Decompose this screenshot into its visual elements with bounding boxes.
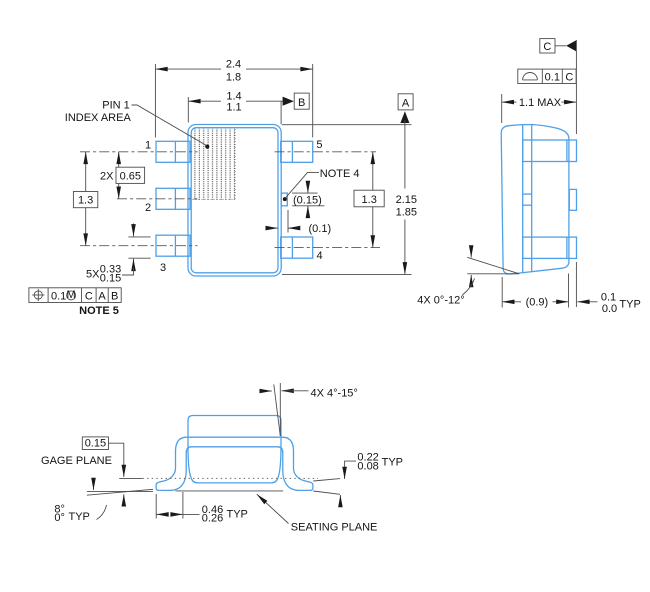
svg-text:NOTE 5: NOTE 5 — [79, 305, 119, 317]
dimension 0.46/0.26 TYP — [156, 492, 248, 524]
datum A box — [398, 94, 413, 110]
dimension 1.3 left — [73, 152, 97, 246]
svg-text:0.1: 0.1 — [51, 291, 66, 303]
dimension 2X 0.65 — [100, 152, 145, 199]
gage plane label — [41, 437, 124, 477]
pin 3 lead — [156, 235, 190, 256]
dimension 2.4/1.8 — [155, 58, 312, 137]
seating plane line — [175, 490, 283, 492]
svg-text:A: A — [98, 291, 106, 303]
svg-text:M: M — [67, 289, 76, 301]
svg-text:0.15: 0.15 — [100, 272, 121, 284]
svg-text:INDEX AREA: INDEX AREA — [65, 112, 132, 124]
svg-text:NOTE 4: NOTE 4 — [320, 168, 360, 180]
svg-text:1.3: 1.3 — [78, 195, 93, 207]
svg-text:TYP: TYP — [69, 511, 90, 523]
pin 3 centerline — [80, 245, 198, 247]
dimension (0.9) — [502, 274, 568, 309]
dimension 0.22/0.08 TYP — [313, 452, 403, 505]
dimension 8/0 degrees TYP — [54, 481, 153, 525]
svg-text:2X: 2X — [100, 170, 114, 182]
svg-text:B: B — [298, 97, 305, 109]
gage plane solid segment — [119, 477, 142, 479]
svg-text:C: C — [543, 41, 551, 53]
svg-text:1.3: 1.3 — [362, 194, 377, 206]
svg-text:2.4: 2.4 — [226, 58, 241, 70]
svg-text:SEATING PLANE: SEATING PLANE — [291, 521, 378, 533]
datum C flag — [540, 39, 577, 53]
dimension 1.3 right — [354, 152, 384, 248]
svg-text:1.1: 1.1 — [226, 102, 241, 114]
side view body outline — [501, 125, 569, 275]
right gull-wing lead — [283, 451, 313, 490]
pin 1 lead — [156, 141, 190, 162]
svg-text:0.0: 0.0 — [602, 303, 617, 315]
pin 5 lead — [281, 141, 313, 162]
svg-text:B: B — [111, 291, 118, 303]
side view parting lines — [522, 125, 524, 273]
svg-text:4: 4 — [316, 250, 322, 262]
svg-text:1.8: 1.8 — [226, 72, 241, 84]
svg-text:A: A — [402, 98, 410, 110]
profile tolerance frame — [518, 69, 576, 84]
svg-text:0.1: 0.1 — [545, 72, 560, 84]
svg-text:2: 2 — [145, 202, 151, 214]
pin 4 centerline — [275, 247, 381, 249]
svg-text:C: C — [565, 72, 573, 84]
svg-text:0.15: 0.15 — [85, 438, 106, 450]
PIN 1 INDEX AREA label and leader — [65, 100, 210, 149]
svg-text:TYP: TYP — [382, 456, 403, 468]
gage plane dotted line — [143, 477, 319, 479]
package body inner outline — [191, 128, 278, 273]
pin 1 index area stipple — [193, 129, 236, 200]
pin 5 centerline — [275, 151, 377, 153]
side view top lead — [523, 140, 577, 162]
svg-text:0.65: 0.65 — [120, 170, 141, 182]
svg-text:1.4: 1.4 — [226, 90, 241, 102]
lead shoulder upper line — [176, 437, 294, 451]
dimension (0.1) — [267, 210, 332, 235]
svg-text:(0.9): (0.9) — [526, 296, 549, 308]
lead shoulder lower line — [186, 447, 283, 453]
dimension 4X 0-12 degrees — [417, 249, 519, 307]
svg-text:4X 0°-12°: 4X 0°-12° — [417, 294, 464, 306]
front view body outline — [188, 416, 281, 483]
mold protrusion feature — [281, 193, 287, 206]
svg-text:0°: 0° — [54, 512, 65, 524]
geometric tolerance frame — [29, 288, 121, 303]
dimension (0.15) — [292, 181, 325, 218]
package body outer outline — [188, 125, 281, 277]
svg-text:2.15: 2.15 — [396, 194, 417, 206]
svg-text:4X 4°-15°: 4X 4°-15° — [311, 387, 358, 399]
dimension 2.15/1.85 — [396, 111, 417, 274]
svg-text:0.08: 0.08 — [357, 460, 378, 472]
pin 1 centerline — [80, 151, 198, 153]
seating plane label — [257, 494, 378, 533]
svg-text:1: 1 — [145, 140, 151, 152]
side view middle lead — [523, 189, 577, 210]
dimension 1.1 MAX — [502, 94, 577, 123]
body bottom extension line — [282, 273, 412, 275]
svg-text:TYP: TYP — [227, 509, 248, 521]
svg-text:C: C — [85, 291, 93, 303]
svg-text:3: 3 — [160, 262, 166, 274]
svg-text:5: 5 — [316, 139, 322, 151]
svg-text:TYP: TYP — [619, 298, 640, 310]
svg-text:(0.1): (0.1) — [309, 223, 332, 235]
pin 4 lead — [281, 237, 313, 258]
svg-text:(0.15): (0.15) — [293, 194, 322, 206]
pin 2 centerline — [117, 198, 198, 200]
NOTE 4 label and leader — [283, 168, 360, 201]
pin 2 lead — [156, 188, 190, 209]
svg-text:5X: 5X — [86, 268, 100, 280]
left gull-wing lead — [156, 451, 186, 490]
lead tip extension line — [575, 40, 577, 134]
svg-text:0.1: 0.1 — [601, 292, 616, 304]
side view bottom lead — [523, 237, 577, 258]
svg-text:PIN 1: PIN 1 — [102, 100, 130, 112]
dimension 5X 0.33/0.15 — [86, 224, 151, 285]
dimension 1.4/1.1 — [188, 90, 294, 124]
body top extension line — [282, 124, 412, 126]
svg-text:GAGE PLANE: GAGE PLANE — [41, 455, 112, 467]
datum B box — [294, 93, 309, 109]
dimension 0.1/0.0 TYP — [577, 292, 641, 315]
svg-text:0.26: 0.26 — [202, 512, 223, 524]
svg-text:1.1 MAX: 1.1 MAX — [519, 97, 562, 109]
svg-text:1.85: 1.85 — [396, 206, 417, 218]
dimension 4X 4-15 degrees — [264, 383, 358, 436]
